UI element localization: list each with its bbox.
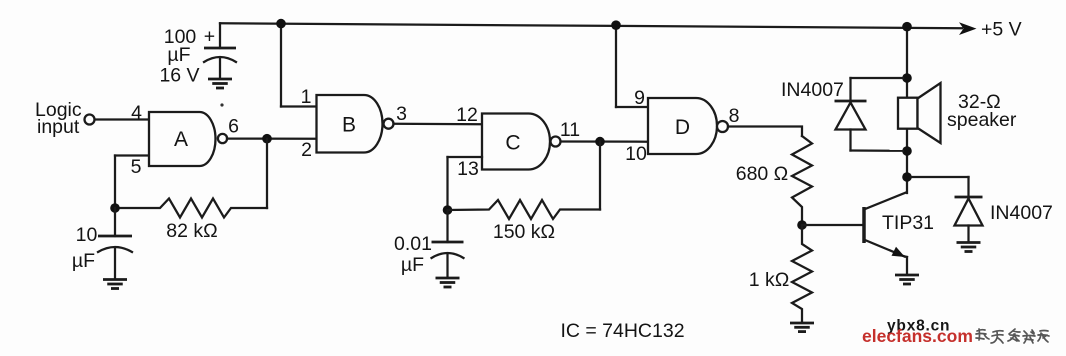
svg-text:10: 10: [625, 143, 647, 165]
svg-text:3: 3: [396, 103, 407, 125]
svg-text:6: 6: [228, 116, 239, 138]
svg-text:11: 11: [560, 119, 580, 141]
svg-text:5: 5: [131, 156, 142, 178]
svg-text:IN4007: IN4007: [781, 79, 844, 101]
svg-text:µF: µF: [167, 44, 190, 66]
svg-text:+5 V: +5 V: [981, 19, 1022, 41]
svg-text:1: 1: [301, 86, 312, 108]
svg-text:B: B: [342, 114, 356, 137]
svg-text:12: 12: [456, 104, 478, 126]
svg-text:C: C: [505, 132, 520, 155]
svg-text:1 kΩ: 1 kΩ: [749, 269, 790, 291]
svg-text:10: 10: [76, 224, 98, 246]
svg-text:8: 8: [729, 105, 740, 127]
svg-text:µF: µF: [401, 254, 424, 276]
svg-text:IN4007: IN4007: [990, 202, 1053, 224]
svg-text:+: +: [204, 26, 215, 48]
svg-text:input: input: [37, 116, 80, 138]
svg-text:speaker: speaker: [947, 109, 1017, 131]
svg-text:4: 4: [131, 102, 142, 124]
svg-text:9: 9: [634, 87, 645, 109]
svg-text:680 Ω: 680 Ω: [736, 163, 789, 185]
svg-text:16 V: 16 V: [159, 65, 199, 87]
svg-text:2: 2: [301, 139, 312, 161]
svg-text:TIP31: TIP31: [882, 212, 934, 234]
svg-text:elecfans.com: elecfans.com: [862, 326, 973, 346]
svg-text:13: 13: [457, 158, 479, 180]
svg-text:82 kΩ: 82 kΩ: [166, 220, 217, 242]
svg-text:0.01: 0.01: [394, 233, 432, 255]
svg-text:150 kΩ: 150 kΩ: [493, 221, 555, 243]
svg-text:D: D: [675, 116, 690, 139]
svg-text:µF: µF: [72, 250, 95, 272]
svg-text:IC = 74HC132: IC = 74HC132: [560, 320, 684, 342]
svg-text:A: A: [174, 128, 188, 151]
